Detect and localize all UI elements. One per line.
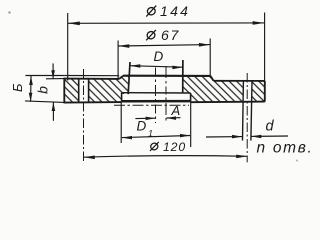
- dim Ø67: left arrowhead: [118, 44, 129, 48]
- boss top + far-edge line across bore: [123, 75, 210, 77]
- dim D1: left arrowhead: [122, 136, 132, 140]
- left bolt hole center line (extends down as Ø120 reference): [83, 69, 85, 162]
- svg-text:D: D: [137, 119, 147, 134]
- dim A: right arrow shaft: [166, 117, 180, 119]
- hatching right rim outer: [251, 81, 265, 102]
- dim Ø67: label: [146, 30, 156, 40]
- svg-text:A: A: [171, 103, 181, 118]
- hatching left rim outer: [64, 79, 78, 103]
- disc axis line: [165, 66, 167, 121]
- dim D1: right arrowhead: [180, 134, 190, 138]
- dim Ø144: left extension line: [67, 13, 69, 81]
- dim b: bottom arrow shaft: [52, 102, 54, 121]
- hatching left rim inner + left boss shoulder: [89, 76, 130, 103]
- dim Ø120: right arrowhead: [236, 155, 247, 159]
- dim d: right arrow shaft: [251, 135, 288, 137]
- dim d: left arrowhead (pointing right): [232, 135, 242, 139]
- hatching right of bore to right bolt hole: [183, 76, 244, 102]
- rim bottom right: [191, 101, 265, 104]
- dim B(cyr): top arrowhead: [29, 76, 33, 85]
- dim Ø144: dimension line: [68, 22, 265, 24]
- dim Ø120: label: [150, 142, 159, 151]
- dim Ø67: dimension line: [118, 45, 210, 46]
- scan speck top-left: [8, 11, 10, 13]
- dim D1: right extension line: [190, 102, 192, 148]
- dim A: left arrowhead (pointing right): [146, 117, 156, 121]
- svg-text:d: d: [266, 119, 275, 135]
- svg-text:120: 120: [163, 140, 186, 154]
- dim A: left arrow shaft: [135, 117, 155, 119]
- dim Ø144: left arrowhead: [68, 22, 80, 26]
- dim b: bottom arrowhead (pointing up): [52, 102, 56, 111]
- right bolt hole wall right (extends down for d dim): [251, 81, 252, 141]
- dim B(cyr): top extension line (continues as boss top): [25, 75, 64, 77]
- svg-text:1: 1: [148, 129, 153, 139]
- dim B(cyr): bottom extension line: [25, 101, 64, 103]
- svg-text:67: 67: [161, 27, 180, 43]
- dim b: lower level ext line at left: [46, 78, 64, 80]
- dim D1: dimension line: [122, 136, 190, 138]
- horizontal dash-dot line under lip: [114, 104, 189, 106]
- lip right edge: [190, 93, 192, 101]
- rim top left (continuous across bolt hole): [64, 78, 120, 80]
- dim D: left arrowhead: [130, 64, 140, 68]
- dim B(cyr): dimension line: [30, 76, 32, 102]
- boss step left (slanted): [119, 76, 123, 79]
- left bolt hole wall right: [88, 79, 90, 103]
- dim Ø144: label: [146, 6, 156, 17]
- svg-text:144: 144: [160, 3, 190, 19]
- svg-text:n отв.: n отв.: [257, 140, 313, 157]
- dim D: right arrowhead: [172, 66, 182, 70]
- dim Ø67: left extension line: [117, 41, 119, 79]
- dim b: top arrow shaft: [52, 63, 54, 78]
- dim d: left arrow shaft: [206, 136, 242, 138]
- dim B(cyr): bottom arrowhead: [29, 93, 33, 102]
- dim D: dimension line: [130, 66, 183, 68]
- lip (collar) top line across bore: [122, 92, 191, 94]
- dim Ø120: left arrowhead: [84, 156, 95, 160]
- bore right wall: [182, 60, 184, 93]
- dim Ø144: right arrowhead: [253, 21, 265, 25]
- svg-text:Б: Б: [10, 83, 25, 92]
- dim B(cyr): upper ext continuation over rim: [64, 75, 119, 77]
- flange outline: [64, 60, 265, 103]
- left edge: [63, 78, 65, 103]
- right bolt hole wall left (extends down for d dim): [242, 81, 245, 141]
- dim D1: left extension line: [120, 102, 122, 143]
- dim Ø120: dimension line (slight bow): [84, 156, 247, 158]
- dim b: top arrowhead (pointing down): [51, 70, 55, 79]
- rim bottom left: [64, 101, 122, 104]
- svg-text:b: b: [35, 86, 51, 94]
- dim Ø67: right arrowhead: [199, 43, 210, 47]
- left bolt hole wall left: [78, 79, 80, 103]
- dim d: right arrowhead (pointing left): [251, 135, 261, 139]
- bore axis center line: [155, 68, 157, 124]
- scan speck bottom-right: [296, 160, 298, 162]
- dim Ø144: right extension line: [264, 13, 266, 82]
- rim top right: [214, 80, 265, 82]
- boss step right (slanted): [210, 76, 213, 81]
- svg-text:D: D: [154, 49, 164, 64]
- lip left edge: [121, 93, 123, 102]
- dim Ø67: right extension line: [209, 39, 211, 77]
- dim A: right arrowhead (pointing left): [166, 116, 176, 120]
- right bolt hole center line (extends down as Ø120 reference): [246, 73, 248, 162]
- lip bottom edge (thick): [122, 100, 191, 103]
- bore left wall (slightly slanted): [128, 62, 130, 94]
- right edge: [264, 81, 266, 102]
